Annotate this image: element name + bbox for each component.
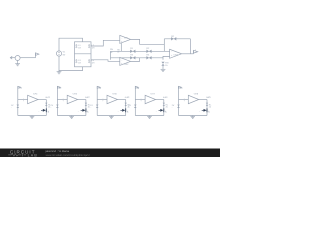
label RL4 — [166, 103, 169, 108]
wire OA2 output to rail 2 — [131, 58, 140, 62]
resistor R1 — [130, 47, 135, 53]
svg-text:out2: out2 — [85, 96, 90, 99]
wire block2 output — [78, 100, 86, 116]
wire block4 input — [135, 99, 145, 101]
ground G1 — [57, 71, 62, 74]
op-amp OA8 — [184, 93, 199, 104]
wire block5 output — [199, 100, 207, 116]
source VS1 — [17, 105, 20, 108]
node flag F3 — [97, 86, 102, 90]
current probe P4 — [156, 108, 168, 113]
CircuitLab logo — [8, 149, 38, 157]
ground below I1 — [15, 61, 20, 66]
node flag OUT — [194, 48, 198, 53]
footer credit text — [45, 150, 91, 157]
wire rail 1 — [111, 50, 170, 52]
op-amp OA2 — [120, 57, 131, 65]
wire OA1 lower terminal to rail — [120, 43, 122, 51]
block T1 pin L4 — [89, 59, 95, 64]
label VS1 — [11, 104, 14, 110]
ground G2 — [161, 66, 166, 72]
wire block2 bottom rail — [57, 115, 86, 117]
voltage source V1 — [56, 51, 61, 56]
wire block1 bottom rail — [18, 115, 47, 117]
coupled block T1 outline — [75, 42, 92, 67]
op-amp OA5 — [63, 93, 78, 104]
op-amp OA3 — [170, 49, 182, 58]
resistor RL3 — [125, 103, 127, 106]
wire block1 left vertical — [17, 86, 19, 115]
svg-text:OA7: OA7 — [151, 93, 156, 96]
wire block1 output — [38, 100, 46, 116]
block T1 pin L1 — [76, 44, 82, 49]
svg-text:1H: 1H — [78, 61, 81, 64]
resistor R3 — [130, 53, 135, 59]
wire block3 input — [97, 99, 107, 101]
label RL5 — [209, 103, 212, 108]
wire I1 to flag IN — [20, 57, 35, 59]
current probe P1 — [38, 108, 50, 113]
ground GB3 — [109, 116, 114, 119]
svg-text:o: o — [195, 48, 196, 51]
source VS3 — [96, 105, 99, 108]
svg-text:2k: 2k — [166, 106, 168, 109]
label VS4 — [128, 104, 131, 110]
wire block1 input — [18, 99, 28, 101]
wire T1 out B to op-amp OA2 — [91, 60, 120, 62]
current probe P2 — [78, 108, 90, 113]
footer bar — [0, 149, 220, 158]
source VS2 — [56, 105, 59, 108]
wire block5 input — [179, 99, 189, 101]
wire rail joiner — [110, 51, 112, 60]
node flag F4 — [135, 86, 140, 90]
svg-text:OA4: OA4 — [33, 93, 38, 96]
label out3 — [125, 96, 130, 99]
source VS5 — [177, 105, 180, 108]
resistor R2 — [146, 47, 151, 53]
resistor R4 — [146, 53, 151, 59]
ground GB4 — [147, 116, 152, 119]
block T1 pin L3 — [76, 59, 82, 64]
op-amp OA6 — [102, 93, 117, 104]
wire T1 out A to op-amp OA1 — [91, 40, 120, 46]
svg-text:OA3: OA3 — [174, 53, 179, 56]
wire block5 left vertical — [178, 86, 180, 115]
current probe P3 — [118, 108, 130, 113]
label out2 — [85, 96, 90, 99]
wire rail 2 — [111, 57, 164, 59]
wire OA1 output to node N1 — [131, 39, 165, 44]
label R5 — [110, 48, 121, 54]
wire OA3 noninverting input — [163, 56, 170, 59]
ground GB1 — [30, 116, 35, 119]
label VS5 — [172, 104, 175, 110]
svg-text:OA6: OA6 — [112, 93, 117, 96]
op-amp OA1 — [120, 35, 131, 43]
wire block4 output — [156, 100, 164, 116]
label VS2 — [50, 104, 53, 110]
resistor RG — [161, 61, 168, 67]
resistor RL1 — [45, 103, 47, 106]
feedback wire OA3 — [164, 39, 190, 54]
svg-text:1H: 1H — [78, 46, 81, 49]
resistor RL4 — [163, 103, 165, 106]
wire block3 left vertical — [96, 86, 98, 115]
wire V1 bottom rail — [59, 56, 83, 71]
svg-text:LAB: LAB — [28, 154, 38, 158]
ground GB2 — [69, 116, 74, 119]
svg-text:2k: 2k — [209, 106, 211, 109]
op-amp OA7 — [141, 93, 156, 104]
node flag F5 — [179, 86, 184, 90]
svg-text:www.circuitlab.com/circuit/4p8: www.circuitlab.com/circuit/4p8rkc2ja57 — [46, 154, 91, 157]
svg-text:OA8: OA8 — [194, 93, 199, 96]
wire block2 input — [57, 99, 67, 101]
source VS4 — [134, 105, 137, 108]
wire block3 output — [118, 100, 126, 116]
label VS3 — [90, 104, 93, 110]
wire block4 bottom rail — [135, 115, 164, 117]
svg-text:1H: 1H — [92, 46, 95, 49]
wire block5 bottom rail — [179, 115, 208, 117]
svg-text:out1: out1 — [45, 96, 50, 99]
wire block4 left vertical — [134, 86, 136, 115]
wire block2 left vertical — [56, 86, 58, 115]
label out5 — [206, 96, 211, 99]
wire block3 bottom rail — [97, 115, 126, 117]
label RL1 — [48, 103, 51, 108]
ground GB5 — [190, 116, 195, 119]
svg-text:OA2: OA2 — [124, 63, 129, 66]
svg-text:OA5: OA5 — [73, 93, 78, 96]
svg-text:out3: out3 — [125, 96, 130, 99]
svg-text:1H: 1H — [92, 61, 95, 64]
current probe P5 — [199, 108, 211, 113]
current source I1 — [10, 56, 20, 61]
svg-text:out5: out5 — [206, 96, 211, 99]
svg-text:out4: out4 — [163, 96, 168, 99]
resistor RF — [171, 35, 176, 41]
resistor RL2 — [85, 103, 87, 106]
label out4 — [163, 96, 168, 99]
node flag F1 — [18, 86, 23, 90]
wire V1 top to block T1 — [59, 38, 83, 51]
block T1 pin L2 — [89, 44, 95, 49]
label V1 — [63, 51, 66, 57]
svg-text:jakemmd : Yo Mama: jakemmd : Yo Mama — [45, 150, 70, 153]
svg-text:OA1: OA1 — [124, 36, 129, 39]
op-amp OA4 — [23, 93, 38, 104]
node flag IN — [36, 53, 39, 58]
label RL2 — [88, 103, 91, 108]
resistor RL5 — [206, 103, 208, 106]
label out1 — [45, 96, 50, 99]
wire OA3 output — [182, 53, 194, 55]
label RL3 — [128, 103, 131, 108]
node flag F2 — [57, 86, 62, 90]
